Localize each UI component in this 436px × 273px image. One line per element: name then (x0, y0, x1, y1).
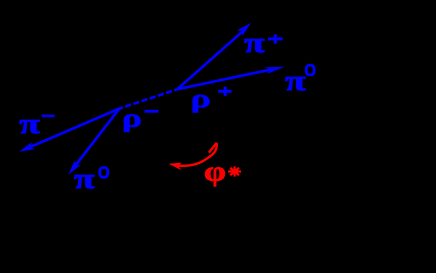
wire: pi-plus arrow line from rho-plus vertex (177, 29, 245, 89)
svg-text:π: π (19, 108, 40, 140)
asterisk of phi-star (228, 166, 241, 176)
svg-text:ρ: ρ (122, 104, 142, 133)
svg-text:π: π (285, 65, 306, 97)
svg-text:π: π (74, 163, 95, 195)
superscript minus of pi-minus (42, 115, 55, 118)
superscript zero of lower-left pi-zero (100, 168, 108, 178)
svg-text:ρ: ρ (191, 84, 211, 113)
svg-text:π: π (244, 27, 265, 59)
superscript minus of rho-minus (145, 110, 159, 113)
wire: pi-zero (lower-left) arrow line from rho-minus vertex (73, 109, 120, 169)
pi-minus arrowhead (18, 142, 35, 155)
red arc left arrowhead (169, 163, 182, 171)
wire: dashed rho flight line between vertices (120, 89, 178, 108)
wire: pi-minus arrow line from rho-minus vertex (26, 109, 120, 150)
pi-zero right arrowhead (265, 63, 285, 74)
pi-plus arrowhead (237, 20, 254, 36)
superscript zero of right pi-zero (306, 65, 314, 75)
red arc upper arrowhead barb (209, 143, 217, 153)
wire: pi-zero (right) arrow line from rho-plus vertex (177, 68, 277, 89)
pi-zero lower-left arrowhead (65, 160, 81, 177)
red rotation arc for phi-star angle (177, 143, 217, 166)
superscript plus of pi-plus (268, 37, 283, 40)
svg-text:φ: φ (204, 155, 226, 187)
superscript plus of rho-plus (218, 90, 232, 93)
